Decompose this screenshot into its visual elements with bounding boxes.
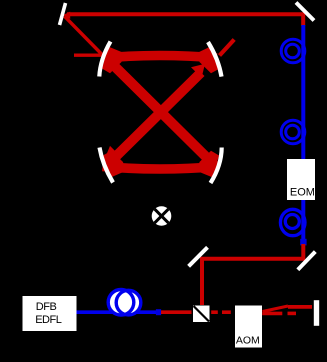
fold mirror M4 (left) bbox=[189, 247, 208, 266]
arrowhead on circulating beam near top-right mirror bbox=[191, 64, 205, 78]
DFB EDFL box bbox=[23, 296, 77, 331]
first-order diffracted beam bbox=[263, 306, 289, 312]
beam wedge at top-left cavity mirror bbox=[102, 47, 124, 74]
svg-text:EDFL: EDFL bbox=[35, 314, 62, 326]
flat mirror M1 top-left bbox=[60, 3, 66, 25]
curved mirror top-right bbox=[208, 42, 222, 77]
beam M1 to cavity input coupler bbox=[65, 16, 103, 55]
beam wedge at bottom-right cavity mirror bbox=[197, 151, 219, 178]
fiber connector (collimator) right bbox=[300, 239, 306, 246]
free-space beam from collimator to beamsplitter cube bbox=[202, 244, 303, 305]
curved mirror bottom-left bbox=[100, 148, 114, 183]
fiber connector (collimator) bottom bbox=[156, 309, 161, 315]
fold mirror M3 (right) bbox=[298, 252, 316, 270]
arrowhead on circulating beam near bottom-left mirror bbox=[104, 146, 121, 162]
fiber coil C bbox=[280, 209, 305, 235]
svg-text:DFB: DFB bbox=[36, 301, 57, 313]
beam wedge at bottom-left cavity mirror bbox=[103, 151, 126, 178]
beam crossing symbol (circle with X) bbox=[152, 206, 172, 226]
intracavity beam diagonal TL-BR bbox=[106, 58, 216, 166]
intracavity beam top bbox=[103, 56, 218, 59]
curved mirror top-left (input coupler) bbox=[99, 42, 110, 77]
dashed beam cube to AOM bbox=[211, 310, 231, 314]
cavity output beam (top right) bbox=[220, 40, 235, 56]
EOM box bbox=[287, 159, 315, 200]
beamsplitter cube bbox=[193, 306, 210, 323]
intracavity beam diagonal BL-TR bbox=[106, 73, 201, 167]
curved mirror bottom-right bbox=[211, 148, 222, 184]
fiber from DFB laser bbox=[77, 310, 162, 314]
beam collimator to cube bbox=[161, 310, 192, 314]
svg-text:EOM: EOM bbox=[290, 187, 315, 199]
fiber coil A bbox=[281, 39, 305, 63]
fiber line (vertical, right side) bbox=[301, 25, 305, 241]
svg-text:AOM: AOM bbox=[236, 335, 260, 347]
first-order beam to retro mirror bbox=[288, 305, 312, 309]
fiber loop (polarization controller) bbox=[108, 290, 141, 316]
input beam from top mirror M2 to M1 (arrow points left) bbox=[67, 14, 303, 26]
input arrow barb at input coupler bbox=[74, 54, 103, 57]
flat mirror M2 top-right bbox=[296, 3, 314, 21]
fiber coil B bbox=[281, 120, 305, 144]
zeroth-order dashed beam after AOM bbox=[262, 312, 296, 316]
retro-reflection end mirror bbox=[314, 300, 319, 326]
AOM box bbox=[235, 306, 262, 348]
intracavity beam bottom bbox=[103, 167, 218, 170]
beam wedge at top-right cavity mirror bbox=[197, 47, 220, 74]
